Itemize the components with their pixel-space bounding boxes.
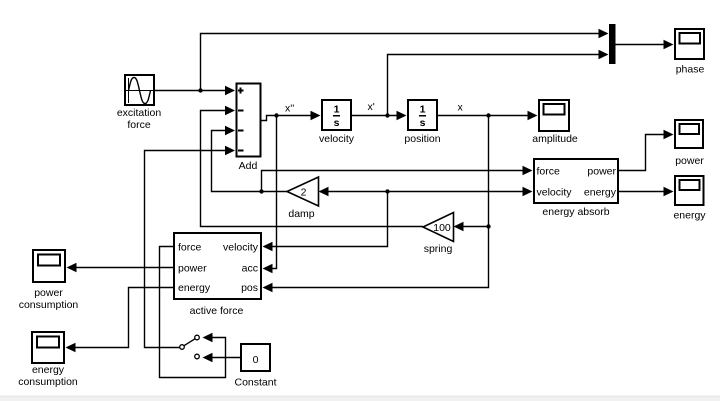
constant block: Constant (0) xyxy=(241,344,270,371)
wire: x' into damp input xyxy=(319,187,388,196)
svg-text:1: 1 xyxy=(420,104,426,116)
svg-text:energy: energy xyxy=(178,282,211,294)
wire: damp output feedback to Add input 3 xyxy=(212,126,288,192)
svg-text:energy: energy xyxy=(584,187,617,199)
scope block: energy consumption xyxy=(32,332,64,363)
scope block: energy xyxy=(675,176,704,205)
footer grey strip xyxy=(0,396,720,401)
svg-text:Constant: Constant xyxy=(234,377,276,389)
wire: x' to energy absorb velocity input xyxy=(388,187,533,196)
wire: x branch down to spring input and pos input xyxy=(263,116,489,293)
sine source block: excitation force xyxy=(125,75,154,105)
svg-text:acc: acc xyxy=(242,263,258,275)
sum block Add xyxy=(237,84,261,157)
wire: position output to amplitude scope, node x xyxy=(437,111,538,120)
wire: active force force output down to switch upper contact xyxy=(160,247,226,378)
svg-text:force: force xyxy=(178,242,202,254)
wire: Constant output to switch lower contact xyxy=(203,353,241,362)
svg-text:active force: active force xyxy=(190,305,244,317)
svg-text:energy: energy xyxy=(673,210,706,222)
svg-text:x': x' xyxy=(368,101,375,113)
subsystem block: active force xyxy=(174,233,261,299)
junction node on excitation wire xyxy=(198,88,202,92)
scope block: power xyxy=(675,120,703,148)
svg-text:power: power xyxy=(178,263,207,275)
svg-text:energy absorb: energy absorb xyxy=(542,206,609,218)
gain block: damp (2) xyxy=(287,177,319,206)
wire: active force energy output to energy consumption scope xyxy=(66,288,175,353)
svg-text:excitation: excitation xyxy=(117,107,162,119)
integrator block: velocity xyxy=(322,100,351,130)
label: power consumption xyxy=(19,287,79,311)
wire: active force power output to power consumption scope xyxy=(67,263,175,272)
junction node x' xyxy=(385,113,389,117)
manual switch xyxy=(180,335,200,359)
subsystem block: energy absorb xyxy=(534,159,618,203)
svg-text:power: power xyxy=(675,155,704,167)
svg-text:phase: phase xyxy=(676,64,705,76)
svg-text:s: s xyxy=(334,117,340,129)
svg-text:force: force xyxy=(127,119,151,131)
svg-text:2: 2 xyxy=(301,187,307,199)
wire: x' down to active force velocity input xyxy=(263,192,388,252)
wire: spring output feedback to Add input 2 xyxy=(201,106,424,227)
svg-text:power: power xyxy=(587,166,616,178)
wire: sine output to Add + input xyxy=(154,86,235,95)
junction node x'' xyxy=(274,113,278,117)
mux bar xyxy=(609,24,616,64)
wire: mux output to phase scope xyxy=(616,40,674,49)
svg-text:velocity: velocity xyxy=(537,187,573,199)
label: excitation force xyxy=(117,107,162,131)
svg-text:damp: damp xyxy=(288,208,314,220)
junction node x xyxy=(486,113,490,117)
svg-text:x: x xyxy=(458,102,464,114)
svg-text:pos: pos xyxy=(241,282,258,294)
svg-text:consumption: consumption xyxy=(19,299,79,311)
scope block: amplitude xyxy=(539,100,569,131)
svg-text:force: force xyxy=(537,166,561,178)
svg-text:1: 1 xyxy=(334,104,340,116)
junction node at spring branch xyxy=(486,224,490,228)
svg-text:power: power xyxy=(34,287,63,299)
wire: x' branch up to mux input 2 xyxy=(388,50,609,116)
svg-text:100: 100 xyxy=(433,222,451,234)
svg-text:position: position xyxy=(404,133,440,145)
gain block: spring (100) xyxy=(423,213,454,242)
wire: excitation branch up to mux input 1 xyxy=(201,29,609,91)
svg-text:velocity: velocity xyxy=(223,242,259,254)
svg-text:s: s xyxy=(420,117,426,129)
svg-text:amplitude: amplitude xyxy=(532,133,578,145)
svg-text:velocity: velocity xyxy=(319,133,355,145)
label: energy consumption xyxy=(18,364,78,388)
scope block: phase xyxy=(675,29,704,59)
svg-text:0: 0 xyxy=(253,354,259,366)
scope block: power consumption xyxy=(33,250,65,282)
wire: x branch into spring gain xyxy=(454,222,489,231)
svg-text:x'': x'' xyxy=(285,103,294,115)
junction node on damp output xyxy=(259,189,263,193)
wire: damp force to energy absorb force input xyxy=(262,166,533,192)
wire: Add output step to velocity integrator, node x'' xyxy=(261,111,321,121)
svg-text:spring: spring xyxy=(424,243,453,255)
svg-text:energy: energy xyxy=(32,364,65,376)
wire: velocity output to position, node x' xyxy=(351,111,407,120)
svg-text:consumption: consumption xyxy=(18,376,78,388)
wire: energy absorb power output to power scope xyxy=(618,130,674,171)
wire: energy absorb energy output to energy scope xyxy=(618,187,674,196)
wire: x'' down to active force acc input xyxy=(263,116,277,274)
junction node on x' vertical at damp line xyxy=(385,189,389,193)
wire: switch output to Add input 4 and constant feed xyxy=(145,146,236,348)
svg-text:Add: Add xyxy=(239,160,258,172)
integrator block: position xyxy=(408,100,437,130)
